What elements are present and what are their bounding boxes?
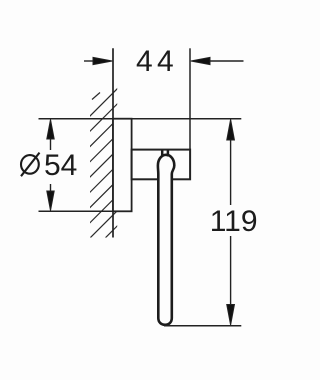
- dim 44 right extension line: [189, 48, 191, 150]
- rosette plate (side view): [113, 119, 132, 212]
- dim label Ø diameter symbol: [21, 153, 40, 177]
- ring loop (side view): [158, 155, 174, 325]
- svg-text:44: 44: [136, 45, 178, 78]
- svg-text:119: 119: [210, 205, 258, 238]
- svg-text:54: 54: [44, 149, 77, 182]
- dim 54 top extension line (rosette top edge extended): [39, 118, 242, 120]
- dim 44 right arrow: [191, 57, 244, 64]
- dim 54 vertical line upper segment + up arrow: [47, 120, 54, 151]
- wall hatch stub: [92, 93, 100, 100]
- dim 119 lower segment + down arrow: [227, 236, 235, 325]
- dim 119 bottom extension line: [164, 325, 241, 327]
- dim 119 upper segment + up arrow: [227, 119, 235, 205]
- dim 44 left arrow: [84, 57, 112, 64]
- dim 54 vertical line lower segment + down arrow: [47, 184, 54, 211]
- wall hatch: [89, 88, 118, 254]
- holder arm: [132, 150, 191, 180]
- dim 44 left extension / wall line: [112, 48, 114, 237]
- pivot pin: [162, 151, 168, 157]
- dim 54 bottom extension line (rosette bottom edge extended): [39, 210, 132, 212]
